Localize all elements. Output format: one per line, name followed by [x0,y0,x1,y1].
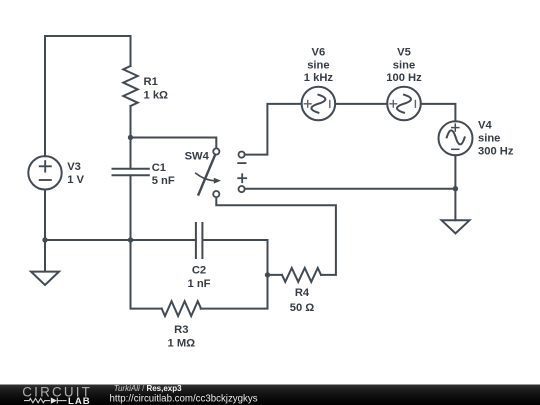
ground left [31,272,59,285]
voltage source V4 [439,121,473,155]
svg-text:1 nF: 1 nF [188,278,211,290]
wire node A to SW4 [131,138,217,149]
svg-text:sine: sine [478,133,500,145]
switch SW4 arrow [196,173,216,181]
wire R3 right lead [201,275,268,309]
svg-text:C2: C2 [192,264,206,276]
wire V5 to V4 top [421,104,456,121]
svg-text:V4: V4 [478,120,492,132]
svg-text:100 Hz: 100 Hz [386,72,422,84]
wire C2 right lead [203,240,268,275]
svg-text:R4: R4 [295,287,310,299]
resistor R1 [123,66,137,106]
resistor R3 [162,301,201,316]
wire ground lead right [454,189,456,221]
svg-text:R1: R1 [144,76,158,88]
wire C1 top lead [130,138,132,169]
svg-text:LAB: LAB [68,396,91,405]
junction V3 bottom [42,237,47,242]
footer bar [0,385,540,405]
switch SW4 arrowhead [214,178,221,184]
svg-text:1 kHz: 1 kHz [304,72,334,84]
svg-text:V6: V6 [312,47,326,59]
svg-text:TurkiAli / Res,exp3: TurkiAli / Res,exp3 [114,384,182,393]
wire V6 to V5 [335,103,387,105]
wire bottom horizontal to C2 [45,239,196,241]
switch SW4 bottom terminal [213,191,219,197]
svg-text:50 Ω: 50 Ω [290,302,315,314]
capacitor C1 [113,169,149,176]
wire ground lead left [44,240,46,272]
svg-text:300 Hz: 300 Hz [478,146,514,158]
throw terminal plus [239,186,245,192]
wire minus throw to V6 [245,104,302,155]
svg-text:5 nF: 5 nF [152,175,175,187]
junction V4 bottom [453,186,458,191]
wire plus throw to V4 node [245,188,456,190]
throw terminal minus [239,152,245,158]
junction R4 left [265,272,270,277]
svg-text:V5: V5 [397,47,411,59]
svg-text:1 V: 1 V [67,174,84,186]
capacitor C2 [196,223,203,258]
minus sign mark [238,162,245,164]
switch SW4 top terminal [213,148,219,154]
voltage source V5 [387,87,421,121]
plus sign mark [238,174,246,182]
voltage source V3 [28,156,61,189]
svg-text:sine: sine [393,60,415,72]
wire V4 bottom lead [454,155,456,188]
svg-text:1 kΩ: 1 kΩ [144,90,169,102]
switch SW4 lever [199,154,216,194]
ground right [442,220,470,233]
wire node B down left branch [131,240,162,309]
svg-text:C1: C1 [152,162,166,174]
wire top horizontal [45,35,131,37]
wire R4 right to SW4 bottom throw [216,197,336,275]
wire C1 bottom lead [130,175,132,240]
voltage source V6 [302,87,336,121]
wire V3 top lead [44,36,46,156]
junction node A [128,135,133,140]
logo squiggle wire [24,398,67,404]
svg-text:1 MΩ: 1 MΩ [167,337,195,349]
junction node B [128,237,133,242]
resistor R4 [282,268,321,282]
svg-text:sine: sine [307,60,329,72]
wire R4 left lead [268,274,283,276]
wire R1 top lead [130,36,132,66]
svg-text:SW4: SW4 [185,151,210,163]
svg-text:V3: V3 [67,161,81,173]
logo diode triangle [51,398,57,404]
svg-text:R3: R3 [174,324,188,336]
svg-text:http://circuitlab.com/cc3bckjz: http://circuitlab.com/cc3bckjzygkys [110,394,258,405]
wire R1 bottom lead [130,106,132,138]
wire V3 bottom lead [44,190,46,241]
